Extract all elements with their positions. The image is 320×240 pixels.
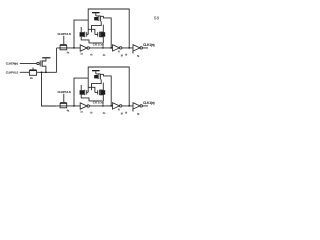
svg-text:58: 58 xyxy=(154,15,160,21)
svg-text:CLKEN(n): CLKEN(n) xyxy=(6,61,18,65)
svg-text:CLKPULS: CLKPULS xyxy=(6,71,19,75)
